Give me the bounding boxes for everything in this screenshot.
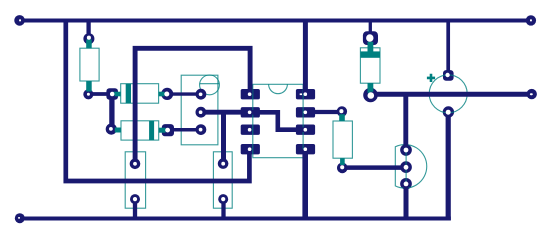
hole D2 left [109,127,113,131]
capacitor C1 left pad (square, pin 1) [106,88,118,100]
hole bottom-left [18,217,20,219]
diode D2 left pad [106,124,117,135]
node pad top-left [14,15,25,26]
wire left loop: bus to J1 area and up to U1 pin 4 [66,21,250,182]
wire bus to D1 top pad [369,21,372,38]
diode D2 right pad (square, cathode) [162,124,174,136]
wire R2 bottom to Q2 middle [342,165,406,170]
op-amp U1 outline [253,84,303,157]
wire bus to C2 positive pad [446,21,450,76]
capacitor C1 right pad [161,88,173,100]
wire D2 right to Q1 bottom [168,128,201,132]
wire bus to R1 top pad [86,21,90,39]
diode D2 body [115,121,166,140]
resistor R2 top pad [337,106,347,116]
hole C1 right [164,92,169,97]
resistor R2 bottom lead [340,158,345,165]
transistor Q2 pad middle [400,161,412,173]
jumper J2 top pad [218,158,229,169]
hole R2 bottom [340,165,344,169]
hole J1 top [133,162,137,166]
wire branch down to Q2 top [403,94,408,150]
resistor R1 body [80,40,99,92]
hole D1 bottom [368,92,375,99]
diode D2 left lead [115,128,121,133]
capacitor C2 outline circle [429,75,467,113]
wire top bus [20,19,531,23]
jumper J2 outline [213,152,232,208]
diode D1 bottom pad [363,88,378,103]
wire U1 zigzag pin2 to pin6 [250,112,305,129]
diode D1 body [360,42,380,93]
resistor R1 bottom lead [86,81,92,92]
wire junction down to J2 top pad [221,112,226,163]
hole Q2 top [404,148,409,153]
capacitor C2 plus sign [427,74,435,82]
transistor Q2 pad top [400,144,412,156]
resistor R2 body [333,114,352,165]
wire U1 right pin 5 down to bus [302,149,308,218]
hole R2 top [339,109,343,113]
hole C2 positive [445,73,449,77]
op-amp U1 pin pads right column [296,89,315,99]
wire bottom bus [20,217,451,221]
hole C2 negative [446,110,451,115]
hole Q1 top [199,92,203,96]
hole Q1 bottom [199,128,203,132]
op-amp U1 pin pads left column [241,89,260,99]
transistor Q1 outline [181,75,218,145]
jumper J1 outline [125,152,145,208]
hole top-right [530,19,532,21]
diode D1 top pad (square, anode) [363,31,378,45]
holes U1 left column [248,92,252,96]
node pad mid-right [527,89,537,99]
diode D1 cathode band [360,51,380,57]
jumper J1 bottom pad [130,194,140,204]
wire bus down to U1 right pin 8 [303,21,308,95]
holes U1 right column [304,92,308,96]
capacitor C1 polarity band [126,84,131,104]
capacitor C1 right lead [159,92,165,97]
resistor R2 top lead [339,114,345,121]
resistor R2 bottom pad [337,163,348,174]
transistor Q1 pad top [196,89,207,100]
node pad bottom-left [15,213,25,223]
hole Q2 middle [404,165,409,170]
transistor Q1 pad middle [196,107,207,118]
diode D2 right lead [159,128,166,133]
transistor Q1 pad bottom [196,124,207,135]
hole mid-right [530,93,533,95]
resistor R1 top lead [86,40,92,49]
hole D2 right [165,128,170,133]
transistor Q1 can circle (under pads) [200,75,220,95]
hole J2 bottom [221,197,225,201]
transistor Q2 pad bottom [400,178,412,190]
node pad top-right [526,15,536,25]
wire U1 right pin 7 to R2 top [305,110,342,114]
diode D1 bottom lead [368,83,374,93]
hole R1 top [87,36,91,40]
pin-1 dash marker on U1 right row1 pad [300,93,302,95]
hole J2 top [221,162,225,166]
op-amp U1 pin-1 notch [269,84,288,93]
diode D1 top lead [368,42,374,52]
transistor Q2 outline [395,145,426,189]
wire Q1 middle to U1 left pin 2 [201,110,250,115]
resistor R1 bottom pad [83,89,93,99]
wire R1 bottom to C1 left [88,92,112,96]
hole J1 bottom [133,197,137,201]
capacitor C2 positive pad (square) [443,70,454,81]
wire C1 right to Q1 top [167,92,201,95]
wire riser to C2 negative pad [446,112,451,220]
hole Q1 middle [199,110,203,114]
hole R1 bottom [87,93,90,96]
hole Q2 bottom [404,182,409,187]
hole top-left [19,19,21,21]
capacitor C1 left lead [113,92,120,97]
wire J1 bottom stub to bus [133,199,137,218]
wire Q2 bottom to bus [404,184,409,219]
resistor R1 top pad [83,33,94,44]
wire C1 left down to D2 left [109,93,114,129]
capacitor C1 body [113,84,164,104]
wire J2 bottom stub to bus [221,199,225,218]
diode D2 cathode band [149,121,154,140]
hole C1 left [110,92,115,97]
wire D1 bottom across to mid-right pad [370,92,531,97]
jumper J1 top pad [130,159,141,170]
wire box: J1 top pad up and over to U1 pin 1 [135,48,250,163]
capacitor C2 negative pad [443,106,454,117]
hole D1 top [366,34,373,41]
jumper J2 bottom pad [218,194,228,204]
